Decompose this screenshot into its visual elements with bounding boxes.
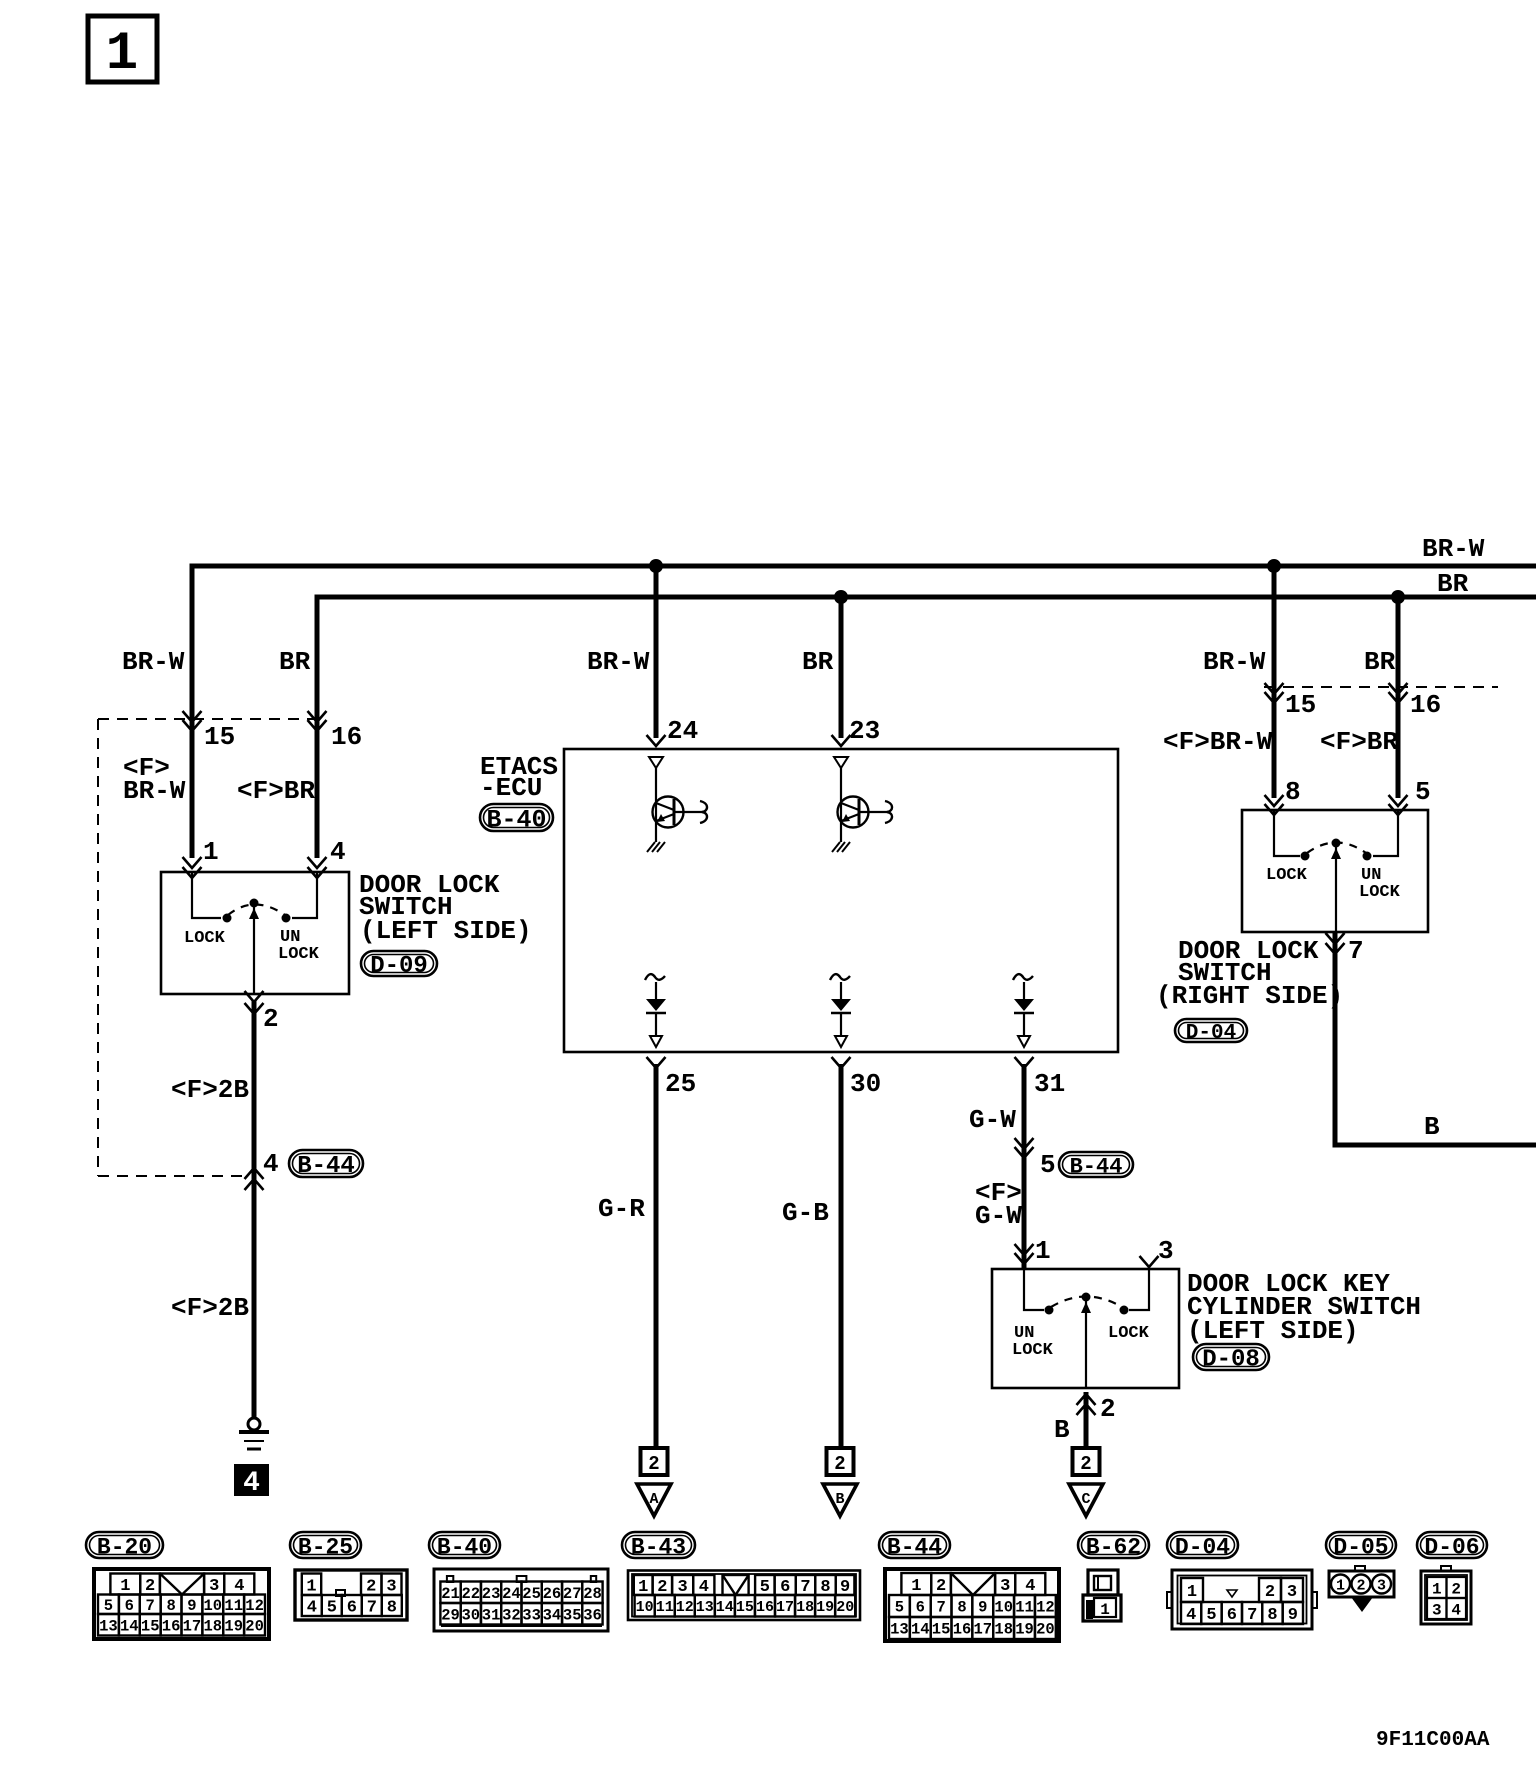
svg-text:<F>BR-W: <F>BR-W: [1163, 727, 1273, 757]
svg-text:1: 1: [1187, 1583, 1197, 1602]
svg-text:9: 9: [978, 1599, 987, 1617]
svg-text:D-08: D-08: [1202, 1347, 1260, 1374]
svg-text:16: 16: [1410, 690, 1441, 720]
svg-text:15: 15: [736, 1599, 754, 1616]
svg-text:18: 18: [796, 1599, 814, 1616]
svg-text:4: 4: [263, 1149, 279, 1179]
svg-text:5: 5: [1415, 777, 1431, 807]
svg-text:2: 2: [1265, 1583, 1275, 1602]
svg-text:BR-W: BR-W: [123, 776, 186, 806]
svg-text:15: 15: [1285, 690, 1316, 720]
svg-text:31: 31: [482, 1606, 501, 1624]
svg-text:B-44: B-44: [887, 1534, 942, 1560]
svg-text:18: 18: [994, 1621, 1013, 1639]
svg-text:2: 2: [263, 1004, 279, 1034]
svg-text:23: 23: [849, 716, 880, 746]
svg-text:G-R: G-R: [598, 1194, 645, 1224]
svg-text:1: 1: [106, 24, 138, 85]
svg-text:B: B: [1424, 1112, 1440, 1142]
svg-text:2: 2: [936, 1577, 946, 1596]
svg-text:2: 2: [366, 1577, 376, 1596]
svg-text:17: 17: [776, 1599, 794, 1616]
svg-text:10: 10: [203, 1597, 222, 1615]
svg-text:3: 3: [209, 1577, 219, 1596]
svg-text:8: 8: [387, 1599, 397, 1618]
svg-text:15: 15: [141, 1617, 160, 1635]
svg-text:1: 1: [1336, 1578, 1345, 1595]
svg-text:4: 4: [330, 837, 346, 867]
svg-text:2: 2: [1100, 1394, 1116, 1424]
svg-text:6: 6: [916, 1599, 925, 1617]
svg-text:D-05: D-05: [1333, 1534, 1388, 1560]
svg-text:30: 30: [850, 1069, 881, 1099]
svg-text:21: 21: [441, 1585, 460, 1603]
svg-text:B-62: B-62: [1086, 1534, 1141, 1560]
svg-text:10: 10: [636, 1599, 654, 1616]
svg-text:2: 2: [1080, 1453, 1091, 1475]
svg-text:BR-W: BR-W: [587, 647, 650, 677]
svg-text:15: 15: [204, 722, 235, 752]
svg-text:17: 17: [973, 1621, 992, 1639]
svg-text:D-04: D-04: [1175, 1534, 1230, 1560]
svg-text:12: 12: [245, 1597, 264, 1615]
svg-text:30: 30: [461, 1606, 480, 1624]
svg-text:33: 33: [522, 1606, 541, 1624]
svg-text:G-B: G-B: [782, 1198, 829, 1228]
svg-text:1: 1: [306, 1577, 316, 1596]
svg-text:3: 3: [1000, 1577, 1010, 1596]
svg-text:9: 9: [187, 1597, 196, 1615]
svg-text:16: 16: [331, 722, 362, 752]
svg-text:25: 25: [665, 1069, 696, 1099]
svg-text:16: 16: [162, 1617, 181, 1635]
svg-text:2: 2: [1356, 1578, 1365, 1595]
svg-text:27: 27: [563, 1585, 582, 1603]
svg-text:20: 20: [1036, 1621, 1055, 1639]
svg-text:32: 32: [502, 1606, 521, 1624]
svg-text:LOCK: LOCK: [1012, 1341, 1054, 1360]
svg-text:D-04: D-04: [1186, 1022, 1236, 1045]
svg-text:4: 4: [234, 1577, 244, 1596]
svg-text:19: 19: [816, 1599, 834, 1616]
svg-text:10: 10: [994, 1599, 1013, 1617]
svg-text:9F11C00AA: 9F11C00AA: [1376, 1729, 1490, 1752]
svg-text:<F>2B: <F>2B: [171, 1075, 249, 1105]
svg-text:2: 2: [648, 1453, 659, 1475]
svg-text:2: 2: [834, 1453, 845, 1475]
svg-text:B-40: B-40: [437, 1534, 492, 1560]
svg-text:12: 12: [676, 1599, 694, 1616]
svg-text:BR: BR: [802, 647, 834, 677]
svg-text:G-W: G-W: [969, 1105, 1016, 1135]
svg-text:14: 14: [120, 1617, 139, 1635]
svg-text:5: 5: [327, 1599, 337, 1618]
svg-text:LOCK: LOCK: [1266, 866, 1308, 885]
svg-text:24: 24: [667, 716, 698, 746]
svg-text:1: 1: [1100, 1601, 1110, 1619]
svg-text:35: 35: [563, 1606, 582, 1624]
svg-text:1: 1: [1035, 1236, 1051, 1266]
svg-text:14: 14: [911, 1621, 930, 1639]
svg-text:12: 12: [1036, 1599, 1055, 1617]
svg-text:31: 31: [1034, 1069, 1065, 1099]
svg-text:BR-W: BR-W: [1422, 534, 1485, 564]
svg-text:4: 4: [243, 1468, 260, 1499]
svg-text:13: 13: [99, 1617, 118, 1635]
svg-text:D-06: D-06: [1424, 1534, 1479, 1560]
svg-text:LOCK: LOCK: [1359, 883, 1401, 902]
svg-text:B-25: B-25: [298, 1534, 353, 1560]
svg-text:BR-W: BR-W: [122, 647, 185, 677]
svg-text:6: 6: [1227, 1606, 1237, 1625]
svg-text:7: 7: [367, 1599, 377, 1618]
svg-text:19: 19: [1015, 1621, 1034, 1639]
svg-text:6: 6: [347, 1599, 357, 1618]
svg-text:LOCK: LOCK: [278, 945, 320, 964]
svg-text:13: 13: [696, 1599, 714, 1616]
svg-text:3: 3: [1158, 1236, 1174, 1266]
svg-text:4: 4: [1186, 1606, 1196, 1625]
svg-text:2: 2: [145, 1577, 155, 1596]
svg-text:17: 17: [183, 1617, 202, 1635]
svg-text:1: 1: [1432, 1580, 1442, 1598]
svg-text:B-40: B-40: [486, 806, 546, 835]
svg-text:A: A: [649, 1491, 658, 1508]
svg-text:5: 5: [1206, 1606, 1216, 1625]
svg-text:G-W: G-W: [975, 1201, 1022, 1231]
svg-text:3: 3: [1432, 1601, 1442, 1619]
svg-text:8: 8: [957, 1599, 966, 1617]
svg-text:4: 4: [1025, 1577, 1035, 1596]
svg-text:5: 5: [1040, 1150, 1056, 1180]
svg-text:BR: BR: [1364, 647, 1396, 677]
svg-text:D-09: D-09: [370, 953, 428, 980]
svg-text:29: 29: [441, 1606, 460, 1624]
svg-text:B-44: B-44: [1070, 1154, 1123, 1179]
svg-text:4: 4: [307, 1599, 317, 1618]
svg-text:20: 20: [245, 1617, 264, 1635]
svg-text:<F>BR: <F>BR: [1320, 727, 1398, 757]
svg-text:<F>2B: <F>2B: [171, 1293, 249, 1323]
svg-text:7: 7: [936, 1599, 945, 1617]
svg-text:23: 23: [482, 1585, 501, 1603]
svg-text:26: 26: [543, 1585, 562, 1603]
svg-text:19: 19: [224, 1617, 243, 1635]
svg-text:(LEFT SIDE): (LEFT SIDE): [360, 916, 532, 946]
svg-text:11: 11: [1015, 1599, 1034, 1617]
svg-text:B: B: [1054, 1415, 1070, 1445]
svg-text:8: 8: [1285, 777, 1301, 807]
svg-text:22: 22: [461, 1585, 480, 1603]
svg-text:8: 8: [1267, 1606, 1277, 1625]
svg-text:2: 2: [1451, 1580, 1461, 1598]
svg-text:36: 36: [583, 1606, 602, 1624]
svg-text:24: 24: [502, 1585, 521, 1603]
svg-text:1: 1: [911, 1577, 921, 1596]
svg-text:18: 18: [203, 1617, 222, 1635]
svg-text:(LEFT SIDE): (LEFT SIDE): [1187, 1316, 1359, 1346]
svg-text:1: 1: [203, 837, 219, 867]
svg-text:20: 20: [836, 1599, 854, 1616]
svg-text:14: 14: [716, 1599, 734, 1616]
svg-text:LOCK: LOCK: [184, 929, 226, 948]
svg-text:5: 5: [895, 1599, 904, 1617]
svg-text:16: 16: [953, 1621, 972, 1639]
svg-text:3: 3: [1377, 1578, 1386, 1595]
svg-text:B: B: [835, 1491, 844, 1508]
svg-text:11: 11: [224, 1597, 243, 1615]
svg-text:BR: BR: [279, 647, 311, 677]
svg-text:7: 7: [1247, 1606, 1257, 1625]
svg-text:1: 1: [120, 1577, 130, 1596]
svg-text:13: 13: [890, 1621, 909, 1639]
svg-text:3: 3: [386, 1577, 396, 1596]
svg-text:BR-W: BR-W: [1203, 647, 1266, 677]
svg-text:<F>BR: <F>BR: [237, 776, 315, 806]
svg-text:4: 4: [1451, 1601, 1461, 1619]
svg-text:BR: BR: [1437, 569, 1469, 599]
svg-text:8: 8: [166, 1597, 175, 1615]
svg-text:LOCK: LOCK: [1108, 1324, 1150, 1343]
svg-text:15: 15: [932, 1621, 951, 1639]
svg-text:B-43: B-43: [631, 1534, 686, 1560]
svg-text:7: 7: [1348, 936, 1364, 966]
svg-text:11: 11: [656, 1599, 674, 1616]
svg-text:-ECU: -ECU: [480, 773, 542, 803]
svg-text:3: 3: [1287, 1583, 1297, 1602]
svg-text:C: C: [1081, 1491, 1090, 1508]
svg-text:16: 16: [756, 1599, 774, 1616]
svg-text:B-20: B-20: [97, 1534, 152, 1560]
svg-text:28: 28: [583, 1585, 602, 1603]
svg-text:6: 6: [125, 1597, 134, 1615]
svg-text:(RIGHT SIDE): (RIGHT SIDE): [1156, 981, 1343, 1011]
svg-text:9: 9: [1288, 1606, 1298, 1625]
svg-text:25: 25: [522, 1585, 541, 1603]
svg-text:34: 34: [543, 1606, 562, 1624]
svg-text:7: 7: [146, 1597, 155, 1615]
svg-text:B-44: B-44: [297, 1153, 355, 1180]
svg-text:5: 5: [104, 1597, 113, 1615]
